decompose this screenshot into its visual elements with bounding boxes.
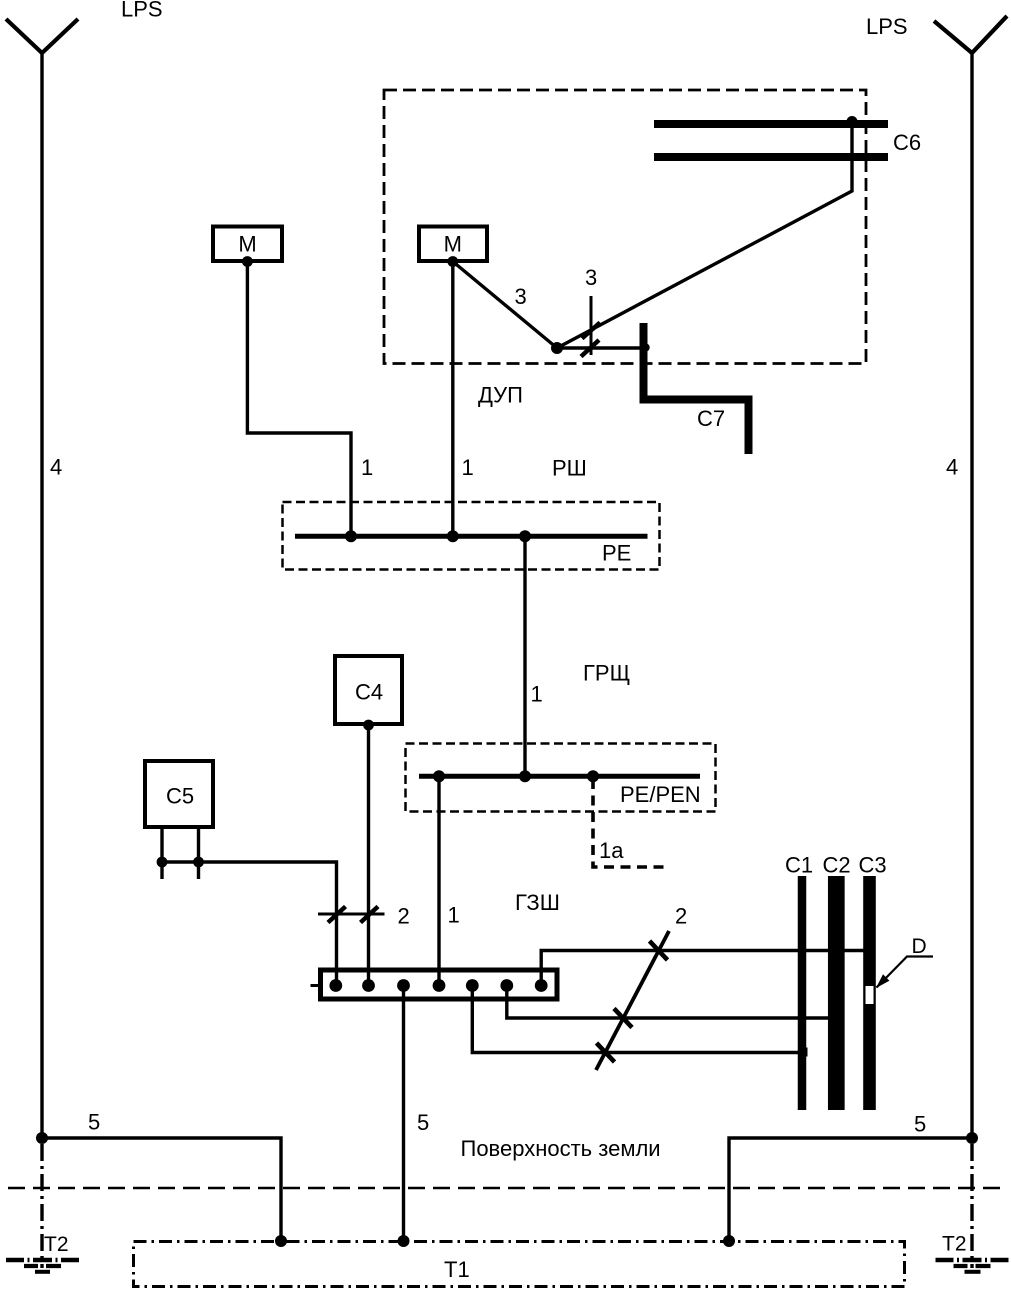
junction dot PE-down	[519, 530, 531, 542]
junction dot at C7	[641, 343, 649, 351]
svg-text:5: 5	[88, 1110, 100, 1135]
dashed box GRShch	[406, 744, 716, 812]
svg-text:5: 5	[417, 1110, 429, 1135]
wire node J1 to C7	[557, 346, 642, 349]
earth symbol T2 left bar 3	[35, 1270, 50, 1274]
junction dot C4	[363, 720, 374, 731]
wire M2 to PE bus (1)	[451, 262, 454, 537]
svg-text:T1: T1	[444, 1257, 470, 1282]
wire LPS-left to T1 (5)	[42, 1138, 281, 1241]
svg-text:5: 5	[914, 1112, 926, 1137]
svg-text:РШ: РШ	[552, 456, 587, 481]
node J1	[551, 342, 563, 354]
LPS down-conductor right (wire 4)	[970, 52, 973, 1138]
conductor C6 bar 2	[654, 153, 888, 161]
svg-text:2: 2	[398, 904, 410, 929]
arrowhead of D leader	[876, 974, 889, 988]
equipment M1 box	[213, 227, 282, 262]
svg-text:LPS: LPS	[866, 14, 908, 39]
junction dot PEN-1a	[587, 770, 599, 782]
wire GZSh to C2	[507, 986, 829, 1019]
svg-text:T2: T2	[44, 1233, 69, 1256]
svg-text:M: M	[444, 232, 462, 257]
GZSh dot 6	[500, 979, 513, 992]
tick on horizontal wire	[581, 340, 599, 357]
svg-text:ГРЩ: ГРЩ	[583, 661, 630, 686]
junction dot PEN-left	[433, 770, 445, 782]
junction dot C5 left	[157, 857, 168, 868]
conductor-count line 3	[590, 296, 593, 355]
wire M1 to PE bus (1)	[247, 262, 351, 537]
junction dot PEN-riser	[519, 770, 531, 782]
earth symbol T2 right bar 3	[965, 1270, 981, 1274]
svg-text:1a: 1a	[599, 838, 624, 863]
C5 terminal stub left	[160, 829, 163, 879]
PE/PEN bus bar	[419, 774, 700, 779]
earth electrode T2 left lead (dash-dot)	[40, 1144, 43, 1268]
junction dot M2	[447, 256, 458, 267]
earth symbol T2 left bar 2	[24, 1264, 61, 1268]
svg-text:1: 1	[462, 455, 474, 480]
GZSh main earthing bar	[321, 970, 558, 999]
wire PE to PE/PEN (1)	[523, 536, 526, 776]
junction dot PE-M1	[345, 530, 357, 542]
conductor C6 bar 1	[654, 120, 888, 128]
svg-text:1: 1	[361, 455, 373, 480]
svg-text:C1: C1	[785, 853, 813, 878]
junction dot T1-right	[723, 1235, 735, 1247]
dashed boundary box (roof equipment area)	[384, 90, 866, 364]
svg-text:LPS: LPS	[121, 0, 163, 22]
leader line to D	[877, 957, 934, 988]
junction dot C5 right	[193, 857, 204, 868]
tick on C3 wire	[650, 941, 668, 960]
LPS air-terminal V right	[934, 16, 1007, 53]
wire M2 to node J1 (3)	[453, 262, 557, 349]
GZSh dot 1	[329, 979, 342, 992]
service pipe C2	[828, 876, 845, 1110]
svg-text:T2: T2	[942, 1233, 967, 1256]
LPS air-terminal V left	[6, 19, 78, 53]
junction dot T1-left	[275, 1235, 287, 1247]
tick on diagonal wire	[582, 323, 600, 339]
svg-text:ГЗШ: ГЗШ	[515, 890, 560, 915]
svg-text:D: D	[912, 935, 927, 958]
earth symbol T2 right bar 2	[954, 1264, 991, 1268]
svg-text:4: 4	[946, 455, 958, 480]
junction dot on C6	[847, 116, 858, 127]
wire C5 to GZSh (2)	[162, 862, 337, 986]
svg-text:C2: C2	[823, 853, 851, 878]
svg-text:PE/PEN: PE/PEN	[620, 782, 701, 807]
svg-text:1: 1	[448, 903, 460, 928]
junction dot PE-M2	[447, 530, 459, 542]
svg-text:C4: C4	[355, 680, 383, 705]
C5 terminal stub right	[197, 829, 200, 879]
earth electrode T2 right lead (dash-dot)	[970, 1144, 973, 1268]
earth symbol T2 right bar 1	[936, 1258, 1009, 1263]
junction dot LPS-left	[36, 1132, 48, 1144]
equipment C5 box	[145, 761, 213, 827]
junction dot LPS-right	[966, 1132, 978, 1144]
PE bus bar	[295, 534, 648, 539]
foundation earth electrode T1 (dash-dot box)	[134, 1242, 905, 1287]
dashed box RSh	[283, 502, 660, 570]
wire PE/PEN to GZSh (1)	[437, 776, 440, 985]
wire C4 to GZSh	[367, 725, 370, 986]
earth symbol T2 left bar 1	[6, 1258, 79, 1263]
GZSh dot 3	[397, 979, 410, 992]
svg-text:M: M	[238, 232, 256, 257]
svg-text:PE: PE	[602, 541, 631, 566]
GZSh dot 5	[466, 979, 479, 992]
svg-text:Поверхность земли: Поверхность земли	[461, 1136, 661, 1161]
junction dot T1-middle	[398, 1235, 410, 1247]
svg-text:3: 3	[585, 265, 597, 290]
dashed wire 1a	[593, 779, 664, 867]
junction dot M1	[242, 256, 253, 267]
conductor C7 (thick step)	[644, 323, 749, 454]
svg-text:2: 2	[675, 904, 687, 929]
svg-text:1: 1	[531, 682, 543, 707]
service pipe C1	[798, 876, 807, 1110]
equipment C4 box	[335, 656, 402, 724]
svg-text:C3: C3	[859, 853, 887, 878]
LPS down-conductor left (wire 4)	[40, 52, 43, 1138]
ground surface dashed line	[8, 1187, 1003, 1189]
wire GZSh to C1	[472, 986, 807, 1053]
tick on C1 wire	[597, 1043, 615, 1062]
GZSh left terminal tick	[311, 984, 319, 987]
bonding conductor 2 (diagonal)	[596, 931, 669, 1070]
tick on C2 wire	[614, 1009, 632, 1028]
GZSh dot 7	[535, 979, 548, 992]
wire LPS-right to T1 (5)	[729, 1138, 972, 1241]
tick on C5 wire	[328, 907, 346, 923]
GZSh dot 2	[362, 979, 375, 992]
wire GZSh to T1 (5)	[402, 986, 405, 1242]
svg-text:C5: C5	[166, 784, 194, 809]
wire from C6 to node J1	[557, 124, 852, 348]
service pipe C3	[863, 876, 876, 1110]
svg-text:3: 3	[515, 284, 527, 309]
nub at C1 wire end	[799, 1048, 808, 1057]
svg-text:C6: C6	[893, 130, 921, 155]
GZSh dot 4	[433, 979, 446, 992]
svg-text:4: 4	[50, 455, 62, 480]
insulating piece D (gap in C3)	[866, 986, 874, 1004]
conductor-count line 2	[318, 913, 385, 916]
wire GZSh to C3	[541, 951, 863, 986]
tick on C4 wire	[361, 907, 379, 923]
equipment M2 box	[419, 227, 487, 262]
svg-text:ДУП: ДУП	[478, 383, 523, 408]
svg-text:C7: C7	[697, 406, 725, 431]
